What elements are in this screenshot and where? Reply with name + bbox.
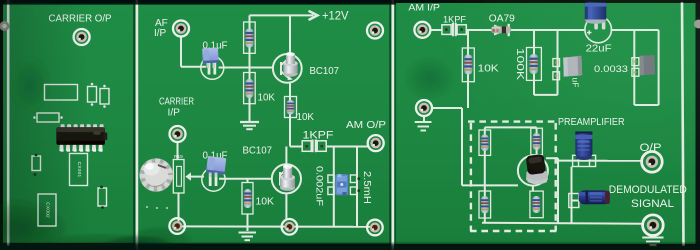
svg-text:+12V: +12V <box>322 10 349 22</box>
svg-text:0.002uF: 0.002uF <box>314 166 325 206</box>
svg-text:10K: 10K <box>297 111 315 123</box>
svg-text:10K: 10K <box>256 196 275 208</box>
svg-text:10K: 10K <box>258 91 276 103</box>
svg-text:BC107: BC107 <box>310 65 340 77</box>
svg-text:1KPF: 1KPF <box>303 129 334 141</box>
